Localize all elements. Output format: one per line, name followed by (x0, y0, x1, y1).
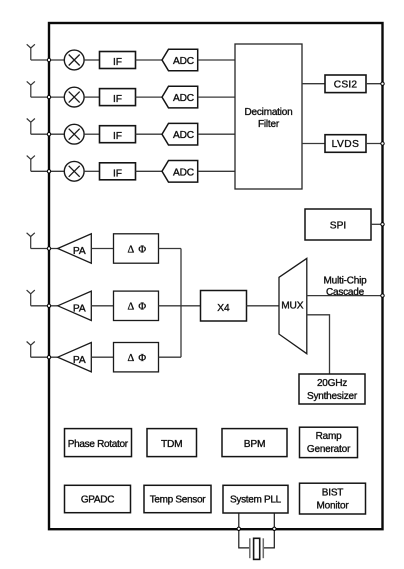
mixer M3 (64, 124, 84, 144)
power amplifier PA2 (58, 291, 92, 320)
svg-text:Cascade: Cascade (326, 287, 365, 298)
ADC2 (162, 86, 198, 108)
antenna RX1 (27, 44, 35, 60)
svg-text:Δ Φ: Δ Φ (128, 353, 147, 364)
SPI box (305, 209, 371, 240)
IF amplifier box IF4 (100, 163, 136, 180)
terminal RX2 (47, 95, 50, 98)
terminal TX1 (47, 247, 50, 250)
svg-text:Synthesizer: Synthesizer (307, 391, 358, 402)
CSI2 interface box (325, 75, 366, 93)
antenna RX2 (27, 81, 35, 97)
IF amplifier box IF3 (100, 126, 136, 143)
BIST monitor box (300, 483, 366, 514)
svg-text:TDM: TDM (161, 439, 182, 450)
svg-text:BIST: BIST (322, 488, 344, 499)
IF amplifier box IF1 (100, 52, 136, 69)
svg-text:IF: IF (113, 57, 122, 68)
wire mixer M4 to IF4 (84, 170, 99, 172)
svg-text:X4: X4 (217, 303, 230, 314)
svg-text:CSI2: CSI2 (334, 79, 358, 90)
wire antenna RX4 to mixer (31, 170, 64, 172)
antenna TX2 (27, 290, 35, 306)
svg-text:IF: IF (113, 131, 122, 142)
svg-text:Δ Φ: Δ Φ (128, 302, 147, 313)
svg-text:20GHz: 20GHz (317, 378, 347, 389)
wire antenna RX2 to mixer (31, 96, 64, 98)
antenna RX4 (27, 156, 35, 172)
wire ADC3 to decimation filter (198, 133, 235, 135)
svg-text:Decimation: Decimation (244, 107, 292, 118)
wire antenna RX3 to mixer (31, 133, 64, 135)
wire system PLL to crystal left lead (239, 513, 250, 548)
power amplifier PA1 (58, 234, 92, 263)
terminal RX4 (47, 170, 50, 173)
svg-text:ADC: ADC (173, 56, 194, 67)
wire IF1 to ADC1 (136, 59, 163, 61)
svg-text:SPI: SPI (330, 221, 346, 232)
terminal multi-chip cascade (381, 294, 384, 297)
wire antenna TX3 to PA3 (31, 356, 58, 358)
terminal RX1 (47, 58, 50, 61)
svg-text:ADC: ADC (173, 130, 194, 141)
crystal X1 body (254, 538, 260, 559)
mixer M2 (64, 87, 84, 107)
svg-text:Filter: Filter (258, 119, 280, 130)
svg-text:PA: PA (73, 304, 86, 315)
vertical TX distribution bus (180, 249, 182, 358)
wire ADC2 to decimation filter (198, 96, 235, 98)
X4 frequency multiplier box (201, 291, 247, 322)
LVDS interface box (325, 135, 366, 153)
wire ADC1 to decimation filter (198, 59, 235, 61)
svg-text:PA: PA (73, 355, 86, 366)
ADC3 (162, 123, 198, 145)
wire X4 to MUX (247, 305, 280, 307)
chip boundary border (49, 23, 383, 529)
ADC4 (162, 161, 198, 183)
phase shifter box 1 (114, 234, 159, 263)
wire decimation filter to LVDS (302, 143, 325, 145)
wire phase shifter 1 to bus (159, 248, 182, 250)
svg-text:LVDS: LVDS (332, 139, 360, 150)
antenna TX1 (27, 233, 35, 249)
wire CSI2 to border (366, 83, 383, 85)
svg-text:ADC: ADC (173, 167, 194, 178)
svg-text:PA: PA (73, 246, 86, 257)
wire ADC4 to decimation filter (198, 170, 235, 172)
antenna TX3 (27, 342, 35, 358)
svg-text:IF: IF (113, 168, 122, 179)
terminal TX2 (47, 304, 50, 307)
IF amplifier box IF2 (100, 89, 136, 106)
terminal crystal right (273, 527, 276, 530)
svg-text:Phase Rotator: Phase Rotator (68, 439, 129, 450)
wire PA3 to phase shifter 3 (91, 356, 113, 358)
temp sensor box (144, 485, 211, 512)
svg-text:ADC: ADC (173, 93, 194, 104)
wire PA2 to phase shifter 2 (91, 305, 113, 307)
wire phase shifter 3 to bus (159, 356, 182, 358)
decimation filter block (235, 44, 302, 189)
svg-text:Ramp: Ramp (316, 431, 343, 442)
svg-text:System PLL: System PLL (230, 495, 282, 506)
phase rotator box (65, 429, 132, 457)
svg-text:Temp Sensor: Temp Sensor (150, 494, 207, 505)
wire MUX to 20GHz synthesizer (307, 315, 330, 374)
svg-text:Monitor: Monitor (317, 500, 350, 511)
wire antenna RX1 to mixer (31, 59, 64, 61)
system PLL box (223, 485, 288, 513)
svg-text:BPM: BPM (244, 439, 265, 450)
wire IF2 to ADC2 (136, 96, 163, 98)
svg-text:IF: IF (113, 94, 122, 105)
wire LVDS to border (366, 143, 383, 145)
power amplifier PA3 (58, 343, 92, 372)
wire MUX multi-chip cascade output (307, 295, 383, 297)
MUX trapezoid (279, 258, 307, 353)
svg-text:GPADC: GPADC (81, 494, 114, 505)
wire system PLL to crystal right lead (263, 513, 274, 548)
GPADC box (65, 485, 131, 512)
wire mixer M1 to IF1 (84, 59, 99, 61)
terminal SPI (381, 223, 384, 226)
terminal LVDS (381, 142, 384, 145)
crystal X1 right plate (262, 538, 264, 558)
wire phase shifter 2 to X4 (159, 305, 201, 307)
svg-text:Generator: Generator (307, 444, 351, 455)
svg-text:MUX: MUX (281, 301, 303, 312)
mixer M1 (64, 50, 84, 70)
terminal crystal left (237, 527, 240, 530)
wire mixer M2 to IF2 (84, 96, 99, 98)
wire antenna TX1 to PA1 (31, 248, 58, 250)
phase shifter box 2 (114, 291, 159, 320)
wire IF4 to ADC4 (136, 170, 163, 172)
terminal RX3 (47, 133, 50, 136)
phase shifter box 3 (114, 343, 159, 372)
wire decimation filter to CSI2 (302, 83, 325, 85)
wire SPI to border (371, 223, 383, 225)
ramp generator box (300, 427, 358, 457)
wire PA1 to phase shifter 1 (91, 248, 113, 250)
wire mixer M3 to IF3 (84, 133, 99, 135)
antenna RX3 (27, 119, 35, 135)
terminal CSI2 (381, 82, 384, 85)
wire IF3 to ADC3 (136, 133, 163, 135)
terminal TX3 (47, 356, 50, 359)
ADC1 (162, 49, 198, 71)
svg-text:Δ Φ: Δ Φ (128, 244, 147, 255)
BPM box (222, 429, 287, 457)
svg-text:Multi-Chip: Multi-Chip (323, 275, 367, 286)
20GHz synthesizer box (299, 374, 365, 404)
mixer M4 (64, 161, 84, 181)
crystal X1 left plate (249, 538, 251, 558)
TDM box (147, 429, 197, 457)
node Multi-Chip Cascade label (323, 275, 367, 298)
wire antenna TX2 to PA2 (31, 305, 58, 307)
